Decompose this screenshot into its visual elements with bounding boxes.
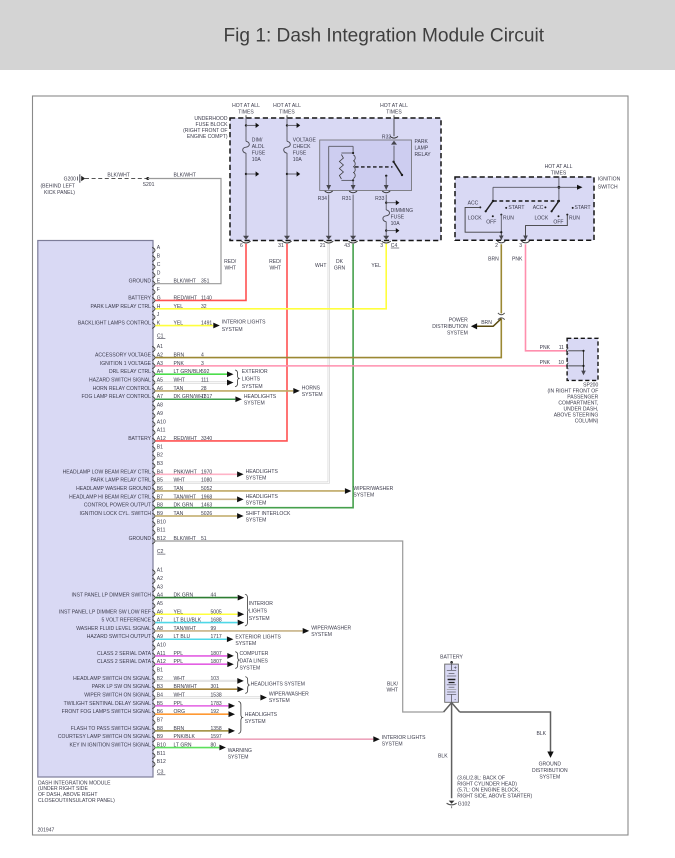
- svg-text:BATTERY: BATTERY: [128, 295, 151, 301]
- branch arrow B+ 2a: [286, 124, 288, 126]
- svg-text:SYSTEM: SYSTEM: [246, 501, 267, 507]
- pin K row label: [152, 323, 155, 329]
- svg-text:HORNS: HORNS: [302, 385, 321, 391]
- svg-text:RUN: RUN: [569, 215, 580, 221]
- svg-text:ACC: ACC: [533, 205, 544, 211]
- svg-text:EXTERIOR LIGHTS: EXTERIOR LIGHTS: [235, 634, 281, 640]
- pin B12 row label: [152, 761, 155, 767]
- svg-text:WHT: WHT: [224, 266, 236, 272]
- svg-text:BLK/WHT: BLK/WHT: [173, 173, 195, 179]
- svg-text:UNDERHOOD: UNDERHOOD: [194, 116, 227, 122]
- bracket HEADLIGHTS SYSTEM (B5/B6/B8): [238, 701, 242, 733]
- svg-text:A11: A11: [157, 428, 166, 434]
- svg-text:A1: A1: [157, 344, 163, 350]
- pin R32 of relay: [390, 136, 398, 138]
- svg-text:DK GRN: DK GRN: [174, 503, 194, 509]
- svg-text:RED/: RED/: [224, 259, 237, 265]
- svg-text:B1: B1: [157, 668, 163, 674]
- svg-text:WIPER/WASHER: WIPER/WASHER: [353, 486, 393, 492]
- svg-text:(RIGHT FRONT OF: (RIGHT FRONT OF: [183, 128, 227, 134]
- pin A10 row label: [152, 645, 155, 651]
- pin A7 row label: [152, 396, 155, 402]
- wire RED/WHT pin6 to pin G: [155, 244, 246, 301]
- wire R34 to pin 21: [328, 195, 330, 237]
- wire WHT 1538 pin B4 (C3): [155, 697, 260, 699]
- svg-text:RELAY: RELAY: [415, 152, 432, 158]
- pin B6 row label: [152, 711, 155, 717]
- pin A11 row label: [152, 430, 155, 436]
- wire PNK pin A3 to SP200 pin 10: [155, 365, 566, 367]
- arrow to HEADLIGHTS SYSTEM (B4): [237, 471, 244, 477]
- svg-text:B11: B11: [157, 528, 166, 534]
- pin R31 of relay: [351, 185, 356, 190]
- svg-text:FUSE: FUSE: [252, 150, 266, 156]
- svg-text:SYSTEM: SYSTEM: [447, 331, 468, 337]
- svg-text:R31: R31: [342, 196, 351, 202]
- arrow A4 to exterior lights: [227, 371, 234, 377]
- ground G200: [41, 174, 86, 196]
- arrow to WIPER/WASHER SYSTEM (B4 C3): [260, 695, 267, 701]
- svg-text:EXTERIOR: EXTERIOR: [242, 369, 268, 375]
- svg-text:DRL RELAY CTRL: DRL RELAY CTRL: [109, 369, 151, 375]
- svg-text:-: -: [454, 698, 456, 704]
- relay switch blade: [392, 161, 394, 163]
- wire R31 to pin 43: [352, 195, 354, 237]
- svg-text:SYSTEM: SYSTEM: [269, 698, 290, 704]
- pin R33 of relay: [384, 185, 389, 190]
- svg-text:GRN: GRN: [334, 266, 346, 272]
- svg-text:R33: R33: [375, 196, 384, 202]
- pin 43 of fuse block: [350, 236, 356, 240]
- svg-text:DISTRIBUTION: DISTRIBUTION: [432, 324, 468, 330]
- wire supply column 1: [245, 118, 247, 141]
- svg-text:21: 21: [320, 243, 326, 249]
- arrow to HORNS SYSTEM: [293, 388, 300, 394]
- wire PNK ignition pin3 to SP200 pin 11: [526, 244, 567, 351]
- pin B1 row label: [152, 446, 155, 452]
- wire LT BLU/BLK 1688 pin A7 (C3): [155, 622, 237, 624]
- pin A8 row label: [152, 405, 155, 411]
- pin B8 row label: [152, 505, 155, 511]
- svg-text:HORN RELAY CONTROL: HORN RELAY CONTROL: [93, 386, 152, 392]
- wire DK GRN pin43 to pin B8: [155, 244, 353, 508]
- svg-text:S201: S201: [143, 182, 155, 188]
- pin 10 of SP200: [567, 363, 569, 369]
- svg-text:WIPER/WASHER: WIPER/WASHER: [269, 691, 309, 697]
- pin B12 row label: [152, 538, 155, 544]
- svg-text:PARK LAMP RELAY CTRL: PARK LAMP RELAY CTRL: [91, 478, 152, 484]
- wire DK GRN 44 pin A4 (C3): [155, 597, 237, 599]
- ignition switch box: [455, 177, 594, 240]
- wire BLK battery to ground G102: [451, 703, 453, 799]
- svg-text:BRN: BRN: [174, 353, 185, 359]
- svg-text:G200: G200: [64, 177, 77, 183]
- svg-text:HEADLAMP SWITCH ON SIGNAL: HEADLAMP SWITCH ON SIGNAL: [73, 676, 151, 682]
- svg-text:RED/: RED/: [269, 259, 282, 265]
- pin B1 row label: [152, 670, 155, 676]
- svg-text:B3: B3: [157, 461, 163, 467]
- wire WHT 111 pin A5: [155, 382, 227, 384]
- ground G102: [447, 801, 457, 809]
- svg-text:4: 4: [201, 353, 204, 359]
- underhood fuse block: [230, 118, 441, 241]
- svg-text:32: 32: [201, 304, 207, 310]
- svg-text:BATTERY: BATTERY: [128, 436, 151, 442]
- wire BRN 1358 pin B8 (C3): [155, 730, 228, 732]
- svg-text:HEADLIGHTS: HEADLIGHTS: [244, 394, 277, 400]
- svg-text:HOT AT ALL: HOT AT ALL: [273, 103, 301, 109]
- svg-text:43: 43: [344, 243, 350, 249]
- svg-text:WHT: WHT: [387, 688, 399, 694]
- svg-text:HEADLAMP HI BEAM RELAY CTRL: HEADLAMP HI BEAM RELAY CTRL: [69, 494, 151, 500]
- relay coil with resistor: [341, 152, 353, 154]
- svg-text:SYSTEM: SYSTEM: [353, 492, 374, 498]
- svg-text:TIMES: TIMES: [279, 109, 295, 115]
- svg-text:FRONT FOG LAMPS SWITCH SIGNAL: FRONT FOG LAMPS SWITCH SIGNAL: [62, 709, 152, 715]
- svg-text:RUN: RUN: [503, 215, 514, 221]
- svg-text:OFF: OFF: [486, 220, 496, 226]
- relay coil link (dashed): [355, 166, 393, 168]
- svg-text:CHECK: CHECK: [293, 144, 311, 150]
- pin A12 row label: [152, 661, 155, 667]
- splice hook to power distribution: [498, 313, 505, 318]
- arrow to GROUND DISTRIBUTION SYSTEM: [547, 752, 553, 758]
- svg-text:201947: 201947: [38, 828, 55, 834]
- arrow to EXTERIOR LIGHTS SYSTEM (A9): [227, 636, 234, 642]
- fuse VOLTAGE CHECK 10A: [284, 141, 291, 153]
- wire supply column 3 to relay pin R32: [393, 115, 395, 136]
- wire ignition bus with arrow: [493, 186, 578, 188]
- wire PNK/BLK 1597 pin B9 (C3): [155, 738, 373, 740]
- svg-text:VOLTAGE: VOLTAGE: [293, 137, 317, 143]
- wire ignition feed: [558, 176, 560, 201]
- pin A11 row label: [152, 653, 155, 659]
- relay K1 PARK LAMP RELAY box: [320, 140, 412, 191]
- pin B row label: [152, 256, 155, 262]
- wire R33 to dimming fuse: [385, 195, 387, 210]
- svg-text:PARK: PARK: [415, 139, 429, 145]
- pin B5 row label: [152, 703, 155, 709]
- svg-text:1140: 1140: [201, 295, 212, 301]
- pin A row label: [152, 247, 155, 253]
- svg-text:TIMES: TIMES: [238, 109, 254, 115]
- svg-text:B7: B7: [157, 718, 163, 724]
- svg-text:10: 10: [558, 360, 564, 366]
- svg-text:IGNITION LOCK CYL. SWITCH: IGNITION LOCK CYL. SWITCH: [79, 511, 151, 517]
- svg-text:WHT: WHT: [315, 263, 327, 269]
- pin A6 row label: [152, 611, 155, 617]
- pin B10 row label: [152, 521, 155, 527]
- pin 21 of fuse block: [326, 236, 332, 240]
- wire TAN/WHT 1968 pin B7: [155, 498, 237, 500]
- pin G row label: [152, 298, 155, 304]
- bracket INTERIOR LIGHTS SYSTEM (C3): [245, 594, 248, 626]
- svg-text:YEL: YEL: [371, 263, 381, 269]
- branch arrow B+ 1a: [245, 124, 247, 126]
- svg-text:SYSTEM: SYSTEM: [246, 476, 267, 482]
- svg-text:11: 11: [559, 345, 564, 351]
- bracket EXTERIOR LIGHTS SYSTEM: [235, 370, 239, 387]
- pin R34 of relay: [326, 185, 331, 190]
- pin B8 row label: [152, 728, 155, 734]
- pin B5 row label: [152, 480, 155, 486]
- branch arrow R33 b: [385, 229, 387, 231]
- branch arrow B+ 1b: [245, 173, 247, 175]
- svg-text:SYSTEM: SYSTEM: [311, 632, 332, 638]
- svg-text:PARK LP SW ON SIGNAL: PARK LP SW ON SIGNAL: [92, 684, 151, 690]
- wire PNK/WHT 1970 pin B4: [155, 473, 237, 475]
- ignition switch 2 blade: [558, 200, 560, 202]
- svg-text:GROUND: GROUND: [129, 536, 152, 542]
- pin B11 row label: [152, 753, 155, 759]
- svg-text:BRN: BRN: [488, 257, 499, 263]
- svg-text:B2: B2: [157, 453, 163, 459]
- svg-text:CLASS 2 SERIAL DATA: CLASS 2 SERIAL DATA: [97, 659, 152, 665]
- pin B4 row label: [152, 695, 155, 701]
- pin A3 row label: [152, 363, 155, 369]
- pin H row label: [152, 306, 155, 312]
- wire YEL 5005 pin A6 (C3): [155, 613, 237, 615]
- pin B9 row label: [152, 736, 155, 742]
- pin B9 row label: [152, 513, 155, 519]
- svg-text:WHT: WHT: [174, 478, 186, 484]
- pin B7 row label: [152, 496, 155, 502]
- pin 3 of ignition switch: [523, 236, 528, 241]
- svg-text:B1: B1: [157, 444, 163, 450]
- svg-text:INTERIOR: INTERIOR: [249, 601, 273, 607]
- svg-text:A1: A1: [157, 568, 163, 574]
- diagram frame: [33, 96, 629, 835]
- pin B10 row label: [152, 745, 155, 751]
- svg-text:LAMP: LAMP: [415, 145, 429, 151]
- title bar: [0, 0, 675, 70]
- svg-text:INST PANEL LP DIMMER SWITCH: INST PANEL LP DIMMER SWITCH: [72, 593, 152, 599]
- wire BLK/WHT 51 pin B12 to battery bus: [155, 541, 443, 712]
- svg-text:YEL: YEL: [174, 304, 184, 310]
- arrow to INTERIOR LIGHTS SYSTEM (pin K): [213, 323, 220, 329]
- svg-text:TWILIGHT SENTINAL DELAY SIGNAL: TWILIGHT SENTINAL DELAY SIGNAL: [64, 701, 152, 707]
- svg-text:COLUMN): COLUMN): [575, 418, 599, 424]
- svg-text:START: START: [508, 205, 524, 211]
- svg-text:LIGHTS: LIGHTS: [242, 377, 261, 383]
- svg-text:RED/WHT: RED/WHT: [174, 295, 198, 301]
- svg-text:SYSTEM: SYSTEM: [302, 392, 323, 398]
- svg-text:1463: 1463: [201, 503, 212, 509]
- pin 3 of fuse block: [383, 236, 389, 240]
- pin B7 row label: [152, 720, 155, 726]
- svg-text:3: 3: [380, 243, 383, 249]
- svg-text:PNK: PNK: [512, 257, 523, 263]
- svg-text:A12: A12: [157, 436, 166, 442]
- svg-text:HOT AT ALL: HOT AT ALL: [545, 164, 573, 170]
- svg-text:C: C: [157, 262, 161, 268]
- svg-text:DIM/: DIM/: [252, 137, 263, 143]
- svg-text:SWITCH: SWITCH: [598, 184, 618, 190]
- svg-text:2: 2: [495, 243, 498, 249]
- svg-text:KICK PANEL): KICK PANEL): [44, 190, 75, 196]
- pin A1 row label: [152, 346, 155, 352]
- arrow to WARNING SYSTEM: [219, 745, 226, 751]
- pin J row label: [152, 314, 155, 320]
- svg-text:HEADLAMP WASHER GROUND: HEADLAMP WASHER GROUND: [76, 486, 151, 492]
- wire YEL pin3 to pin H: [155, 244, 386, 309]
- svg-text:PNK: PNK: [540, 345, 551, 351]
- wire battery bus to ground distribution: [460, 712, 551, 752]
- arrow to INTERIOR LIGHTS SYSTEM (B9 C3): [373, 736, 380, 742]
- bracket COMPUTER DATA LINES SYSTEM: [235, 652, 239, 669]
- branch arrow R33 a: [385, 202, 387, 204]
- arrow to HEADLIGHTS SYSTEM (B7): [237, 496, 244, 502]
- arrow to HEADLIGHTS SYSTEM (A7): [235, 396, 242, 402]
- pin B4 row label: [152, 471, 155, 477]
- svg-text:WASHER FLUID LEVEL SIGNAL: WASHER FLUID LEVEL SIGNAL: [76, 626, 151, 632]
- svg-text:LOCK: LOCK: [534, 215, 548, 221]
- svg-text:CLOSEOUT/INSULATOR PANEL): CLOSEOUT/INSULATOR PANEL): [38, 798, 115, 804]
- svg-text:FUSE BLOCK: FUSE BLOCK: [196, 122, 229, 128]
- svg-text:DIMMING: DIMMING: [391, 208, 414, 214]
- svg-text:POWER: POWER: [449, 318, 468, 324]
- arrow to WIPER/WASHER SYSTEM (A8): [303, 628, 310, 634]
- pin C row label: [152, 264, 155, 270]
- wire relay pin R34 to coil: [328, 146, 330, 189]
- svg-text:COMPUTER: COMPUTER: [240, 651, 269, 657]
- wire LT BLU 1717 pin A9 (C3): [155, 638, 227, 640]
- relay switch fixed contact: [385, 175, 387, 177]
- svg-text:A2: A2: [157, 576, 163, 582]
- svg-text:Fig 1: Dash Integration Module: Fig 1: Dash Integration Module Circuit: [224, 26, 545, 47]
- svg-text:GROUND: GROUND: [539, 761, 562, 767]
- svg-text:DISTRIBUTION: DISTRIBUTION: [532, 768, 568, 774]
- svg-text:351: 351: [201, 279, 210, 285]
- svg-text:CLASS 2 SERIAL DATA: CLASS 2 SERIAL DATA: [97, 651, 152, 657]
- wire BRN/WHT 301 pin B3 (C3): [155, 688, 237, 690]
- svg-text:A2: A2: [157, 353, 163, 359]
- svg-text:A3: A3: [157, 361, 163, 367]
- svg-text:A3: A3: [157, 584, 163, 590]
- svg-text:10A: 10A: [293, 157, 303, 163]
- pin A3 row label: [152, 586, 155, 592]
- svg-text:SYSTEM: SYSTEM: [240, 666, 261, 672]
- svg-text:HEADLAMP LOW BEAM RELAY CTRL: HEADLAMP LOW BEAM RELAY CTRL: [63, 469, 152, 475]
- svg-text:ACC: ACC: [468, 200, 479, 206]
- pin B6 row label: [152, 488, 155, 494]
- wire RUN to pin 3: [526, 215, 568, 240]
- svg-text:INTERIOR LIGHTS: INTERIOR LIGHTS: [222, 319, 266, 325]
- svg-text:PNK: PNK: [174, 361, 185, 367]
- pin B3 row label: [152, 686, 155, 692]
- svg-text:10A: 10A: [391, 221, 401, 227]
- svg-text:BLK: BLK: [438, 754, 448, 760]
- wire ORG 192 pin B6 (C3): [155, 713, 228, 715]
- svg-text:BACKLIGHT LAMPS CONTROL: BACKLIGHT LAMPS CONTROL: [78, 321, 151, 327]
- SP200 internal bus: [568, 351, 583, 372]
- svg-text:3: 3: [519, 243, 522, 249]
- svg-text:(BEHIND LEFT: (BEHIND LEFT: [41, 184, 76, 190]
- svg-text:GROUND: GROUND: [129, 279, 152, 285]
- svg-text:SYSTEM: SYSTEM: [242, 384, 263, 390]
- svg-text:FOG LAMP RELAY CONTROL: FOG LAMP RELAY CONTROL: [81, 394, 151, 400]
- battery BATTERY: [440, 654, 463, 703]
- wire BLK/WHT S201 to pin E: [148, 179, 221, 284]
- svg-text:FUSE: FUSE: [293, 150, 307, 156]
- svg-text:RIGHT CYLINDER HEAD): RIGHT CYLINDER HEAD): [457, 781, 517, 787]
- svg-text:R34: R34: [318, 196, 327, 202]
- svg-text:LIGHTS: LIGHTS: [249, 609, 268, 615]
- pin D row label: [152, 272, 155, 278]
- svg-text:SYSTEM: SYSTEM: [249, 616, 270, 622]
- svg-text:TIMES: TIMES: [386, 109, 402, 115]
- svg-text:FUSE: FUSE: [391, 214, 405, 220]
- wire YEL 1491 pin K: [155, 325, 213, 327]
- pin 6 of fuse block: [243, 236, 249, 240]
- svg-text:INST PANEL LP DIMMER SW LOW RE: INST PANEL LP DIMMER SW LOW REF: [59, 609, 151, 615]
- svg-text:SYSTEM: SYSTEM: [382, 741, 403, 747]
- pin F row label: [152, 289, 155, 295]
- pin A5 row label: [152, 380, 155, 386]
- svg-text:LOCK: LOCK: [468, 215, 482, 221]
- svg-text:HOT AT ALL: HOT AT ALL: [232, 103, 260, 109]
- wire RED/WHT pin31 to pin A12: [155, 244, 287, 441]
- wire TAN 28 pin A6: [155, 390, 293, 392]
- wire WHT 103 pin B2 (C3): [155, 680, 237, 682]
- arrow A5 to exterior lights: [227, 380, 234, 386]
- svg-text:ENGINE COMPT): ENGINE COMPT): [187, 134, 228, 140]
- svg-text:BLK/WHT: BLK/WHT: [174, 279, 196, 285]
- svg-text:HEADLIGHTS: HEADLIGHTS: [245, 712, 278, 718]
- svg-text:BLK/WHT: BLK/WHT: [107, 173, 129, 179]
- svg-text:A10: A10: [157, 419, 166, 425]
- svg-text:SHIFT INTERLOCK: SHIFT INTERLOCK: [246, 511, 291, 517]
- pin B3 row label: [152, 463, 155, 469]
- pin 2 of ignition switch: [499, 236, 504, 241]
- arrow to SHIFT INTERLOCK SYSTEM: [237, 513, 244, 519]
- ignition switch 1 blade: [492, 200, 494, 202]
- svg-text:6: 6: [240, 243, 243, 249]
- svg-text:SYSTEM: SYSTEM: [245, 719, 266, 725]
- svg-text:B11: B11: [157, 751, 166, 757]
- svg-text:BLK: BLK: [536, 731, 546, 737]
- wire TAN 5026 pin B9: [155, 515, 237, 517]
- svg-text:H: H: [157, 304, 161, 310]
- svg-text:3340: 3340: [201, 436, 212, 442]
- svg-text:TIMES: TIMES: [551, 171, 567, 177]
- svg-text:PARK LAMP RELAY CTRL: PARK LAMP RELAY CTRL: [91, 304, 152, 310]
- svg-text:HEADLIGHTS: HEADLIGHTS: [246, 469, 279, 475]
- pin A9 row label: [152, 636, 155, 642]
- pin B2 row label: [152, 678, 155, 684]
- svg-text:G102: G102: [458, 802, 471, 808]
- svg-text:START: START: [575, 205, 591, 211]
- svg-text:WIPER/WASHER: WIPER/WASHER: [311, 626, 351, 632]
- fuse DIMMING 10A: [383, 210, 390, 222]
- splice S201: [146, 177, 149, 180]
- svg-text:DATA LINES: DATA LINES: [240, 658, 269, 664]
- pin 11 of SP200: [567, 348, 569, 354]
- pin A2 row label: [152, 355, 155, 361]
- wire supply column 2: [286, 118, 288, 141]
- wire DK GRN/WHT 1317 pin A7: [155, 398, 235, 400]
- svg-text:SYSTEM: SYSTEM: [222, 327, 243, 333]
- pin A1 row label: [152, 570, 155, 576]
- pin A8 row label: [152, 628, 155, 634]
- svg-text:(5.7L: ON ENGINE BLOCK,: (5.7L: ON ENGINE BLOCK,: [457, 788, 520, 794]
- svg-text:WARNING: WARNING: [228, 748, 252, 754]
- arrow to POWER DISTRIBUTION SYSTEM: [471, 323, 477, 329]
- svg-text:INTERIOR LIGHTS: INTERIOR LIGHTS: [382, 735, 426, 741]
- pin A7 row label: [152, 620, 155, 626]
- svg-text:ALDL: ALDL: [252, 144, 265, 150]
- svg-text:(3.6L/2.8L: BACK OF: (3.6L/2.8L: BACK OF: [457, 775, 505, 781]
